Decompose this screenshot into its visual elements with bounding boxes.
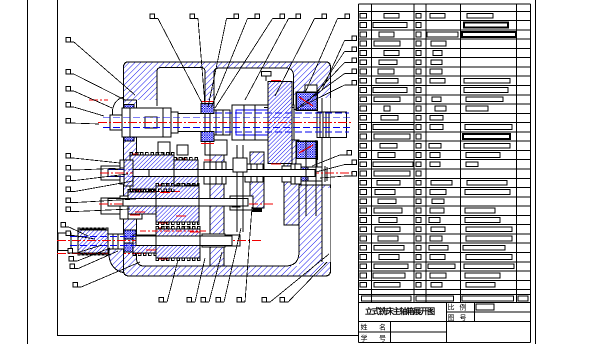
shaft I coupling block [122,108,171,137]
shaft II right locknut [282,164,301,184]
shaft III right bracket [230,196,253,210]
parts list header row [362,296,529,301]
leader left 15 [69,248,110,261]
leader right 7 [316,160,356,172]
leader top 8 [305,14,349,93]
shaft II right bearing [301,166,327,182]
drawing frame left [57,0,59,336]
shaft I left bearing [124,105,134,142]
shaft IV spline end [58,229,124,254]
leader top 3 [208,14,238,107]
gearbox housing hatched section [124,62,331,276]
leader right 4 [300,69,356,106]
leader left 12 [61,223,88,237]
shaft III band through gears [123,199,248,206]
leader bottom 7 [280,262,327,302]
svg-text:号: 号 [460,314,467,322]
shaft II left boss [101,160,140,184]
drawing frame right [535,0,537,344]
shaft II wall gear [124,160,133,186]
left wall flange curve [113,97,124,115]
top cover window left [157,68,205,107]
leader left 6 [66,154,120,164]
leader left 9 [66,181,133,192]
shaft II shifter [245,164,263,182]
leader left 2 [66,70,125,101]
shaft IV band through gears [136,236,232,246]
shaft II body [108,169,315,176]
leader top 1 [150,14,202,103]
shaft II left step block [140,162,149,184]
leader bottom 1 [159,260,178,302]
svg-text:姓: 姓 [361,323,368,332]
leader right 6 [312,151,351,167]
shaft IV dashed lines [70,237,230,246]
title block grid [358,302,530,342]
shaft I centerline [98,121,351,123]
leader top 4 [211,14,259,108]
shaft II dashed lines [108,169,315,176]
parts list table grid [358,4,530,302]
shaft I body [171,110,230,135]
leader left 11 [66,207,130,212]
shaft III body [108,199,248,206]
leader right 5 [294,81,356,111]
shaft I right spacer [296,85,317,168]
shaft I right end cap [317,112,347,138]
sheet outer border left [27,0,29,344]
leader bottom 4 [216,228,241,302]
oil fitting in window [262,72,272,82]
mesh red marks [135,160,212,250]
shaft III left boss [101,196,142,219]
shaft IV aux line [57,253,145,255]
svg-text:比: 比 [448,303,455,312]
housing cavity [137,98,331,266]
gear Z1 large on shaft I [268,81,292,165]
svg-text:号: 号 [379,335,386,343]
leader top 5 [215,14,284,108]
svg-text:例: 例 [460,303,467,312]
leader top 2 [190,14,205,105]
leader left 7 [66,166,124,171]
svg-text:名: 名 [379,323,386,332]
shaft IV right end [202,234,240,247]
gear tooth profile lines [78,153,200,261]
drawing frame bottom [58,335,359,337]
shaft I pitch dashed lines [103,113,352,132]
leader bottom 5 [237,207,252,302]
gear tooth steps [138,153,189,229]
leader left 14 [68,245,102,253]
gear cluster shaft III [128,185,199,223]
scale value box [476,304,494,310]
leader bottom 3 [201,252,222,302]
gear cluster shaft II [130,154,198,190]
top cover window right [214,68,294,106]
gear on shaft IV [133,228,200,259]
leader left 4 [66,103,104,117]
shaft IV body [136,236,232,246]
shaft I right bearing [296,92,317,159]
shaft I mid bearing [201,102,214,144]
leader left 8 [66,174,128,181]
middle rib wall [204,140,226,266]
shaft II band through gears [133,169,315,176]
vertical sleeve shaft [250,152,264,212]
leader right 8 [320,172,356,179]
housing inner wall edges [124,98,331,266]
leader left 10 [66,198,136,203]
svg-text:图: 图 [448,314,455,322]
right rib wall [284,140,299,225]
shaft I sleeve [232,105,294,140]
leader right 2 [315,47,356,96]
leader left 3 [66,87,112,109]
vertical sleeve lines right [306,140,316,216]
leader bottom 6 [262,254,329,302]
under-shaft brackets [158,140,227,156]
shaft IV left bearing [124,230,136,252]
leader top 6 [245,14,300,100]
shaft IV centerline [57,240,262,242]
leader bottom 2 [187,258,205,302]
shaft III centerline [99,203,275,205]
svg-text:学: 学 [361,334,368,343]
leader right 1 [322,36,356,90]
leader top 7 [275,14,326,96]
top-left boss red mark [89,99,108,101]
bottom left corner boss [109,249,124,273]
shaft I left stub [110,115,122,130]
shifter rod vertical [233,145,247,232]
svg-text:立式铣床主轴箱展开图: 立式铣床主轴箱展开图 [365,306,435,316]
shaft II centerline [100,172,352,174]
mesh pitch lines red [138,192,208,232]
leader left 1 [66,38,135,96]
leader left 17 [73,262,140,287]
leader right 3 [308,58,356,101]
leader left 16 [70,251,118,269]
parts list row entries [360,13,516,287]
leader left 13 [66,231,95,239]
leader left 5 [66,119,99,125]
